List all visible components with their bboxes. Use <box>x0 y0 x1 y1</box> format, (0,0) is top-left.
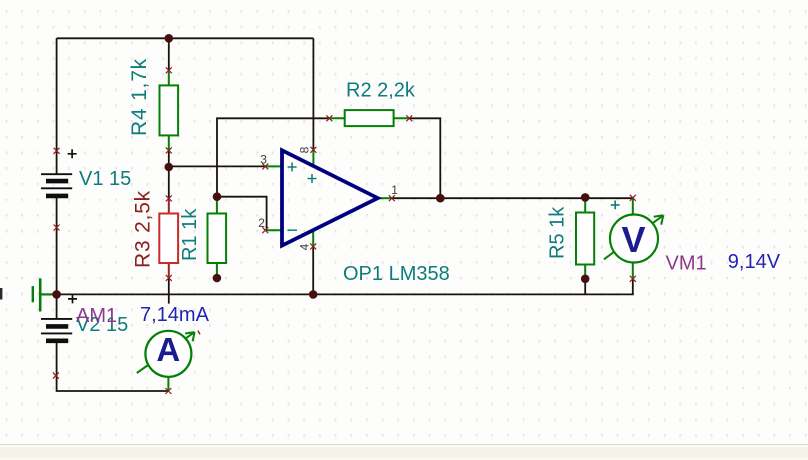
svg-text:7,14mA: 7,14mA <box>140 304 210 326</box>
svg-text:V: V <box>621 219 645 260</box>
svg-text:R2 2,2k: R2 2,2k <box>346 80 416 102</box>
svg-text:1: 1 <box>391 183 398 197</box>
svg-text:A: A <box>156 331 180 368</box>
svg-text:R4 1,7k: R4 1,7k <box>128 58 151 136</box>
svg-text:R3 2,5k: R3 2,5k <box>132 190 155 268</box>
svg-text:R5 1k: R5 1k <box>547 206 569 259</box>
svg-text:3: 3 <box>260 153 267 167</box>
svg-text:V1 15: V1 15 <box>79 168 131 190</box>
svg-text:OP1 LM358: OP1 LM358 <box>343 263 450 285</box>
svg-text:9,14V: 9,14V <box>728 251 781 273</box>
svg-text:AM1: AM1 <box>76 305 117 327</box>
svg-text:2: 2 <box>258 216 265 230</box>
svg-text:4: 4 <box>297 243 311 250</box>
svg-text:R1 1k: R1 1k <box>179 208 201 261</box>
svg-text:VM1: VM1 <box>666 253 707 275</box>
svg-text:8: 8 <box>297 146 311 153</box>
